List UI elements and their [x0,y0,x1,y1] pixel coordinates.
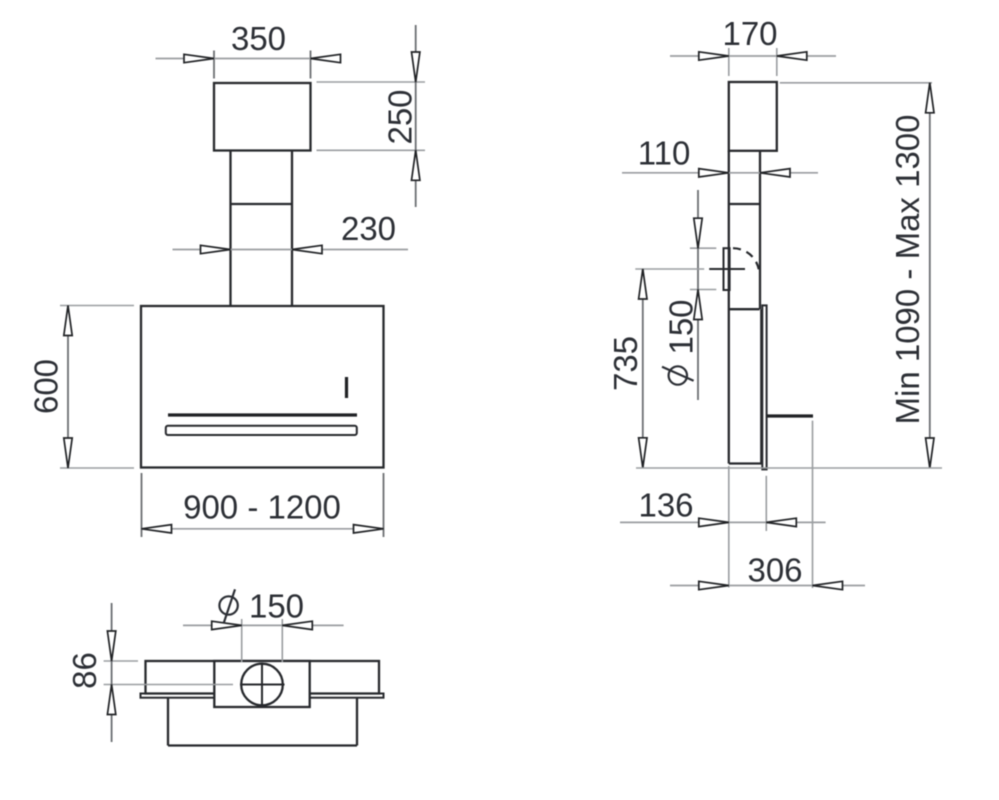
dim 170 dimension line [670,55,836,57]
dim Min-Max arrow bottom [926,438,934,468]
svg-text:230: 230 [341,210,396,247]
dim 350 dimension line [156,58,340,60]
dim 735 arrow top [639,269,647,299]
dim 136 dimension line [620,521,826,523]
dim side Ø150 dimension line [697,190,699,400]
dim 350 extension line left [213,51,215,79]
dim 306 arrow right [813,581,843,589]
front view: glass panel capsule [166,426,357,435]
dim 110 arrow right [760,169,790,177]
dim side Ø150 extension tick top [690,247,716,249]
front view: canopy lower edge line [168,413,357,416]
dim 600 extension line bottom [60,467,134,469]
side view: canopy top edge [730,308,760,310]
dim 170 arrow right [777,52,807,60]
front view: telescopic chimney shaft left edge [229,151,231,307]
dim top Ø150 arrow left [212,621,242,629]
svg-text:150: 150 [249,588,304,625]
dim 900-1200 arrow left [142,525,172,533]
svg-text:250: 250 [382,89,419,144]
dim 170 extension line left [728,48,730,76]
dim 110 dimension line [622,172,818,174]
front view: control switch tick [345,377,348,398]
top view: top plate [146,661,380,694]
side view: duct centerline crosshair [709,268,745,270]
front view: chimney telescopic joint line [231,203,293,205]
dim 900-1200 arrow right [354,525,384,533]
dim 306 extension line right [812,421,814,588]
dim 86 arrow bottom [107,685,115,715]
dim 350 arrow right [311,54,341,62]
dim 86 dimension line [111,603,113,742]
dim 230 dimension line [173,249,409,251]
dim 136 arrow right [766,518,796,526]
dim top Ø150 extension line right [281,619,283,662]
dim 735 extension centerline [635,268,704,270]
dim 250 arrow top [412,52,420,82]
top view: body outline left edge [167,698,169,746]
side view: glass front panel [762,305,766,469]
svg-text:170: 170 [722,15,777,52]
svg-text:Min 1090 - Max 1300: Min 1090 - Max 1300 [889,114,926,424]
dim 136 extension line right [765,476,767,531]
side view: canopy front edge [760,309,762,463]
dim side Ø150 extension tick bottom [690,289,716,291]
dim 735 arrow bottom [639,438,647,468]
svg-text:306: 306 [747,552,802,589]
dim 170 extension line right [776,48,778,76]
top view: body outline bottom edge [168,744,357,746]
dim 735 dimension line [642,269,644,468]
dim 86 arrow top [107,631,115,661]
dim 230 arrow left [201,245,231,253]
svg-text:150: 150 [663,299,700,354]
svg-text:735: 735 [607,336,644,391]
dim 230 arrow right [292,245,322,253]
dim Min-Max dimension line [929,83,931,468]
dim 86 extension line top [104,660,138,662]
top view: duct outlet circle [241,664,283,706]
svg-text:350: 350 [231,20,286,57]
dim 350 extension line right [310,51,312,79]
svg-text:86: 86 [66,652,103,689]
svg-text:900 - 1200: 900 - 1200 [183,489,341,526]
front view: hood body [141,306,384,468]
dim 250 extension line bottom [317,149,426,151]
dim top Ø150 diameter symbol [219,596,237,614]
dim top Ø150 extension line left [241,619,243,662]
side view: body bottom edge [729,462,762,464]
top view: chimney housing box [214,661,309,707]
dim top Ø150 dimension line [183,624,344,626]
dim 306 arrow left [699,581,729,589]
side view: chimney top section [729,82,777,151]
svg-text:110: 110 [638,135,691,172]
dim side Ø150 arrow top [694,218,702,248]
dim 600 extension line top [60,305,134,307]
dim 170 arrow left [699,52,729,60]
dim 250 dimension line [415,25,417,207]
top view: duct crosshair horizontal [240,684,285,686]
dim side Ø150 diameter symbol [669,366,687,384]
dim 900-1200 dimension line [142,528,384,530]
dim 900-1200 extension line right [383,473,385,537]
side view: floor reference baseline [636,467,942,469]
dim top Ø150 arrow right [282,621,312,629]
dim 900-1200 extension line left [141,473,143,537]
dim 136 arrow left [699,518,729,526]
dim 250 arrow bottom [412,150,420,180]
dim 86 centerline extension [104,684,233,686]
svg-text:136: 136 [638,487,693,524]
dim 350 arrow left [184,54,214,62]
dim side Ø150 arrow bottom [694,290,702,320]
side view: chimney telescopic joint [729,203,760,205]
dim 306 dimension line [670,585,865,587]
dim 600 arrow bottom [64,438,72,468]
front view: telescopic chimney shaft right edge [291,151,293,307]
dim 600 dimension line [67,306,69,469]
side view: duct collar [724,248,730,290]
dim Min-Max extension line top [780,82,932,84]
front view: chimney top section [214,83,311,151]
top view: mounting flange strip [141,694,384,698]
side view: flexible duct dashed arc [733,248,759,274]
dim 600 arrow top [64,306,72,336]
dim Min-Max arrow top [926,83,934,113]
top view: body outline right edge [356,698,358,746]
svg-text:600: 600 [28,359,65,414]
dim 250 extension line top [317,81,426,83]
side view: wall line [728,151,730,464]
top view: duct crosshair vertical [261,663,263,707]
side view: chimney shaft front edge [759,151,761,309]
dim 110 arrow left [699,169,729,177]
side view: canopy lower lip [767,414,814,417]
dim wall extension below baseline [728,466,730,588]
